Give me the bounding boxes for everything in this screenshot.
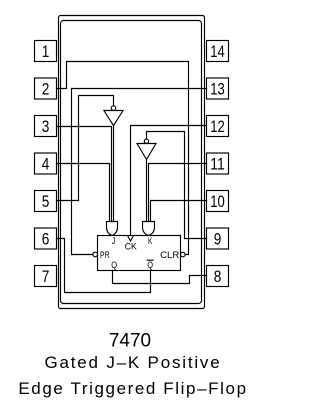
svg-text:Q: Q [147,260,153,270]
svg-text:2: 2 [42,80,50,98]
svg-text:12: 12 [210,118,225,136]
svg-text:14: 14 [210,43,225,61]
pin 13 box [207,78,229,99]
wire pin11 to K gate middle input [149,164,207,222]
svg-text:9: 9 [214,230,222,248]
svg-text:PR: PR [100,250,110,260]
wire pin10 to K gate right input [151,201,207,222]
svg-text:Q: Q [111,260,117,270]
pin 9 box [207,228,229,249]
svg-text:5: 5 [42,193,50,211]
pin 12 box [207,116,229,137]
wire pin8 to Q output [113,271,207,284]
Q-bar overline [147,259,153,261]
pin 3 box [35,116,57,137]
svg-text:7470: 7470 [109,330,151,351]
pin 10 box [207,191,229,212]
inverter U1 input bubble [111,106,116,111]
svg-text:4: 4 [42,155,50,173]
inverter U1 output wire to J gate [113,126,115,222]
svg-text:8: 8 [214,268,222,286]
svg-text:CLR: CLR [160,250,180,260]
inverter U1 triangle [104,111,123,126]
svg-text:7: 7 [42,268,50,286]
IC body inner outline ring [61,21,202,304]
inverter U2 triangle [137,144,156,160]
wire pin3 to J gate middle input [57,127,112,222]
svg-text:1: 1 [42,43,50,61]
flip-flop U3 body [98,236,181,271]
pin 2 box [35,78,57,99]
svg-text:CK: CK [125,241,137,251]
wire pin13 to PR input [72,89,207,255]
wire pin5 to inverter U1 input [57,96,114,201]
CLR input bubble [181,252,186,257]
pin 1 box [35,41,57,62]
wire pin12 to CK input [131,126,207,236]
CK edge-trigger chevron [128,236,134,242]
IC body outer outline [59,16,205,309]
wire pin2 to CLR input [57,62,189,255]
svg-text:13: 13 [210,80,225,98]
pin 8 box [207,266,229,287]
pin 4 box [35,153,57,174]
svg-text:Gated J–K Positive: Gated J–K Positive [45,353,222,372]
svg-text:Edge Triggered Flip–Flop: Edge Triggered Flip–Flop [18,379,247,398]
pin 11 box [207,153,229,174]
pin 14 box [207,41,229,62]
pin 6 box [35,228,57,249]
svg-text:J: J [112,236,116,246]
AND gate J (pointing down) [107,222,118,236]
inverter U2 output wire to K gate [146,160,148,222]
svg-text:3: 3 [42,118,50,136]
inverter U2 input bubble [144,139,148,143]
AND gate K (pointing down) [143,222,155,236]
svg-text:6: 6 [42,230,50,248]
svg-text:K: K [148,236,152,246]
wire pin6 to Q-bar output [57,239,151,293]
wire pin4 to J gate left input [57,164,110,222]
svg-text:10: 10 [210,193,225,211]
svg-text:11: 11 [210,155,225,173]
wire pin9 to inverter U2 input [147,132,207,239]
pin 5 box [35,191,57,212]
PR input bubble [93,252,98,257]
pin 7 box [35,266,57,287]
